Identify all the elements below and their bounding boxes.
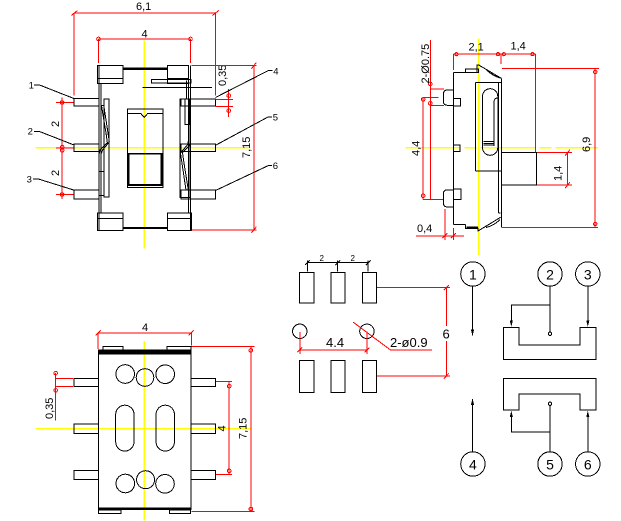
terminal hole row bottom: right bbox=[156, 475, 175, 494]
pad A2 bbox=[331, 272, 345, 303]
pad A1 bbox=[300, 272, 314, 303]
dimension 2,1 (side view) bbox=[454, 41, 501, 70]
terminal hole row top: left bbox=[116, 365, 135, 384]
bottom view top band bbox=[99, 350, 191, 354]
pin 5 (bottom view) bbox=[191, 424, 216, 434]
pin 2 (bottom view) bbox=[74, 424, 99, 434]
slot left (bottom view) bbox=[116, 405, 134, 451]
actuator slot (side view) bbox=[483, 89, 498, 156]
corner tab top-right bbox=[168, 65, 189, 83]
side view inner housing bbox=[476, 82, 502, 171]
svg-text:1: 1 bbox=[29, 81, 34, 92]
centerline horizontal (side view) bbox=[406, 147, 599, 149]
dimension 4 (top view) bbox=[97, 29, 193, 64]
dimension 4 (bottom view inner) bbox=[216, 382, 232, 475]
top view body top edge bbox=[123, 67, 168, 69]
svg-text:4,4: 4,4 bbox=[411, 141, 423, 156]
spring coil in slot bbox=[484, 142, 494, 146]
wire from terminal 1 bbox=[471, 286, 474, 335]
svg-text:2: 2 bbox=[320, 254, 325, 263]
svg-text:2: 2 bbox=[28, 127, 33, 138]
terminal hole row bottom: middle bbox=[137, 471, 155, 489]
svg-text:6,9: 6,9 bbox=[581, 137, 593, 152]
pad B3 bbox=[362, 361, 376, 393]
dimension 2 (footprint left) bbox=[305, 254, 371, 272]
dimension 2-Ø0.75 (side view) bbox=[420, 40, 444, 199]
terminal leader 5 bbox=[216, 112, 279, 145]
pin 6 (bottom view) bbox=[191, 470, 216, 479]
actuator stem (side view) bbox=[501, 153, 536, 186]
top view body left edge bbox=[98, 65, 100, 230]
svg-text:2-ø0.9: 2-ø0.9 bbox=[390, 335, 428, 350]
svg-text:2-Ø0.75: 2-Ø0.75 bbox=[420, 44, 432, 84]
centerline vertical (side view) bbox=[478, 39, 480, 256]
dimension 4 (bottom view top) bbox=[96, 322, 194, 349]
svg-text:2: 2 bbox=[351, 254, 356, 263]
terminal leader 3 bbox=[27, 175, 75, 191]
actuator shaft in slot bbox=[494, 98, 498, 146]
terminal hole row bottom: left bbox=[116, 474, 135, 493]
svg-text:1,4: 1,4 bbox=[553, 166, 565, 181]
dimension 1,4 (stem height) bbox=[537, 150, 572, 189]
centerline vertical (bottom view) bbox=[143, 341, 145, 521]
pin 5 (top view right) bbox=[181, 144, 215, 152]
leader 2-Ø0.9 (footprint holes) bbox=[353, 322, 432, 350]
bottom tab top-right bbox=[167, 346, 191, 350]
centerline horizontal (bottom view) bbox=[36, 428, 251, 430]
terminal 5 bbox=[538, 452, 562, 476]
inner frame left bbox=[104, 99, 109, 197]
svg-text:2: 2 bbox=[50, 121, 62, 127]
slider knob (top view) bbox=[129, 154, 162, 185]
svg-text:4: 4 bbox=[142, 29, 148, 41]
svg-text:1: 1 bbox=[469, 267, 477, 283]
svg-text:0,4: 0,4 bbox=[417, 223, 432, 235]
pin end lower (side view) bbox=[453, 189, 461, 200]
side view right inner edge bbox=[498, 82, 500, 213]
top foot tab (side view) bbox=[465, 69, 478, 72]
terminal leader 6 bbox=[216, 161, 279, 191]
pin 2 (top view left) bbox=[74, 144, 99, 152]
svg-text:4: 4 bbox=[469, 457, 477, 473]
terminal leader 1 bbox=[29, 81, 75, 99]
svg-text:2: 2 bbox=[50, 170, 62, 176]
wire from terminal 5 bbox=[510, 402, 552, 452]
dimension 6,1 bbox=[71, 1, 219, 96]
dimension 4,4 (side view) bbox=[411, 98, 439, 200]
corner tab top-left bbox=[98, 65, 123, 83]
side view body outline bbox=[454, 65, 502, 231]
svg-text:6: 6 bbox=[273, 161, 278, 172]
svg-text:6,1: 6,1 bbox=[136, 1, 151, 13]
pin end upper (side view) bbox=[453, 98, 460, 106]
bent tab curl bottom-right bbox=[486, 220, 500, 228]
bottom view bottom band bbox=[99, 507, 191, 510]
pin 6 (top view right) bbox=[181, 190, 215, 199]
pin 1 (bottom view) bbox=[74, 378, 99, 386]
pin bump lower (side view) bbox=[443, 190, 453, 207]
wire from terminal 6 bbox=[586, 411, 589, 452]
pin 3 (bottom view) bbox=[74, 470, 99, 479]
right contact wiper bbox=[181, 142, 191, 191]
terminal 3 bbox=[576, 262, 600, 286]
hole right (footprint) bbox=[360, 324, 374, 338]
wire from terminal 4 bbox=[471, 399, 474, 452]
slot right (bottom view) bbox=[156, 405, 174, 451]
corner tab bottom-left bbox=[98, 213, 123, 231]
svg-text:1,4: 1,4 bbox=[511, 41, 526, 53]
svg-text:6: 6 bbox=[584, 457, 592, 473]
dimension 6 (footprint) bbox=[377, 285, 450, 378]
dimension 0,4 (side view) bbox=[416, 209, 464, 240]
dimension 0,35 (bottom view) bbox=[44, 371, 73, 420]
pin 3 (top view left) bbox=[74, 190, 99, 199]
dimension 4.4 (footprint) bbox=[298, 332, 370, 355]
terminal 6 bbox=[576, 452, 600, 476]
svg-text:6: 6 bbox=[443, 327, 450, 342]
dimension 7,15 (bottom view) bbox=[192, 347, 255, 512]
svg-text:4: 4 bbox=[273, 66, 278, 77]
slider slot (top view) bbox=[127, 109, 162, 188]
terminal 4 bbox=[461, 452, 485, 476]
svg-text:2: 2 bbox=[546, 267, 554, 283]
pin bump upper (side view) bbox=[443, 90, 453, 105]
svg-text:3: 3 bbox=[27, 175, 32, 186]
pin 1 (top view left) bbox=[74, 99, 99, 107]
pad A3 bbox=[362, 272, 376, 303]
hole left (footprint) bbox=[293, 324, 307, 338]
dimension 6,9 (side view) bbox=[502, 68, 599, 227]
svg-text:3: 3 bbox=[584, 267, 592, 283]
svg-text:0,35: 0,35 bbox=[44, 398, 56, 419]
dimension 7,15 (top view) bbox=[192, 63, 257, 233]
contact bracket lower bbox=[503, 378, 596, 410]
pin 4 (bottom view) bbox=[191, 378, 216, 386]
top view body inner right edge bbox=[188, 84, 190, 213]
bottom tab top-left bbox=[103, 346, 123, 350]
dimension 0,35 (top view pin thickness) bbox=[216, 65, 233, 117]
dimension 1,4 (side view top) bbox=[501, 41, 536, 153]
top view body right edge bbox=[190, 65, 192, 230]
terminal 1 bbox=[461, 262, 485, 286]
svg-text:4: 4 bbox=[142, 322, 148, 334]
top view body inner left edge bbox=[100, 84, 102, 213]
bottom tab bottom-left bbox=[99, 510, 122, 514]
top view body bottom edge bbox=[123, 227, 168, 229]
terminal 2 bbox=[538, 262, 562, 286]
inner contact plate top-right bbox=[185, 99, 189, 125]
bottom tab bottom-right bbox=[170, 510, 191, 514]
bent tab curl top-right bbox=[487, 70, 501, 78]
side view bottom foot bbox=[466, 226, 478, 228]
svg-text:5: 5 bbox=[546, 457, 554, 473]
svg-text:4: 4 bbox=[217, 425, 229, 431]
wire from terminal 3 bbox=[586, 286, 589, 326]
inner contact plate bottom-left bbox=[99, 171, 104, 195]
dimension 2 upper (pin pitch) bbox=[50, 98, 74, 200]
terminal leader 4 bbox=[216, 66, 279, 97]
pad B2 bbox=[331, 361, 345, 393]
pin 4 (top view right) bbox=[181, 99, 215, 106]
svg-text:7,15: 7,15 bbox=[237, 418, 249, 439]
svg-text:5: 5 bbox=[273, 112, 278, 123]
svg-text:4.4: 4.4 bbox=[326, 335, 344, 350]
centerline horizontal (top view) bbox=[35, 147, 249, 149]
bottom view body bbox=[99, 350, 191, 509]
svg-text:2,1: 2,1 bbox=[469, 41, 484, 53]
terminal hole row top: right bbox=[156, 365, 175, 384]
contact bracket upper bbox=[503, 328, 596, 360]
svg-text:0,35: 0,35 bbox=[217, 65, 229, 86]
wire from terminal 2 bbox=[510, 286, 552, 335]
tab link lines top-right bbox=[186, 81, 188, 99]
terminal leader 2 bbox=[28, 127, 74, 145]
svg-text:7,15: 7,15 bbox=[241, 137, 253, 158]
corner tab bottom-right bbox=[168, 213, 192, 231]
left contact wiper bbox=[99, 106, 109, 154]
metal strip top-right bbox=[143, 79, 212, 87]
terminal hole row top: middle bbox=[136, 369, 154, 387]
pad B1 bbox=[300, 361, 314, 393]
pin end middle (side view) bbox=[453, 145, 460, 151]
inner frame right bbox=[180, 99, 190, 197]
centerline vertical (top view) bbox=[143, 41, 145, 249]
